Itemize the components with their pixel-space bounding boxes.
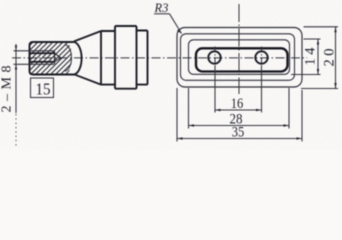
dimension line 35 [177, 138, 302, 140]
threaded hole: minor-diameter walls (thick) [30, 53, 55, 62]
spherical dome arc [73, 42, 82, 75]
svg-text:35: 35 [232, 125, 245, 141]
dimension line 20 [335, 27, 337, 89]
ball head outline (face, top, bottom) [30, 42, 74, 75]
boss outline (thick rounded rect) [196, 48, 288, 71]
16 arrows [215, 109, 221, 111]
svg-text:R3: R3 [154, 1, 169, 15]
cylinder 1: top and bottom edges [101, 31, 115, 85]
main horizontal centerline (both views) [12, 57, 307, 59]
R3 leader shoulder [154, 13, 170, 15]
20 extension lines [301, 27, 338, 89]
dimension 15 box [31, 78, 54, 98]
flange: verticals [115, 26, 137, 89]
35 arrows [177, 137, 183, 139]
outer rounded rect RA [177, 28, 302, 88]
dimension line 14 [317, 39, 319, 75]
taper top line [74, 31, 101, 41]
hole 1 [208, 51, 220, 63]
2-M8 dotted continuation [15, 114, 17, 148]
2-M8 extension lines [14, 51, 29, 65]
2-M8 dimension line [15, 44, 17, 113]
hole-2 extension line down [261, 66, 263, 113]
hole 2 [255, 51, 267, 63]
28 arrows [189, 124, 195, 126]
flange: top and bottom edges [115, 26, 137, 89]
dimension line 16 [215, 109, 262, 111]
cylinder 1: left shoulder vertical [100, 31, 102, 85]
28 extension lines [189, 88, 290, 129]
svg-text:16: 16 [231, 96, 244, 112]
14 extension lines [291, 39, 321, 75]
20 arrows [334, 27, 336, 33]
R3 arrowhead [177, 29, 182, 33]
rounded rect RC [189, 40, 290, 75]
inner transition arc (thin) [65, 45, 72, 71]
threaded hole: major-diameter crest lines (thin) [30, 51, 55, 65]
taper bottom line [74, 74, 101, 84]
rounded rect RB [181, 34, 295, 81]
2-M8 arrows (outside pair) [15, 46, 17, 51]
14 arrows [317, 39, 319, 45]
hole 1 vertical centerline [214, 47, 216, 70]
hole-1 extension line down [214, 66, 216, 113]
thread end line [54, 51, 56, 64]
drill cone point [55, 53, 61, 62]
dimension line 28 [189, 125, 290, 127]
hatching (section lines) [0, 0, 205, 90]
cylinder 3: right end vertical [147, 31, 149, 85]
R3 leader line [170, 14, 182, 34]
svg-text:15: 15 [36, 80, 51, 99]
vertical centerline of right view [238, 4, 240, 94]
35 extension lines [177, 88, 302, 142]
hole 2 vertical centerline [261, 47, 263, 70]
cylinder 3: top and bottom edges [137, 31, 148, 85]
